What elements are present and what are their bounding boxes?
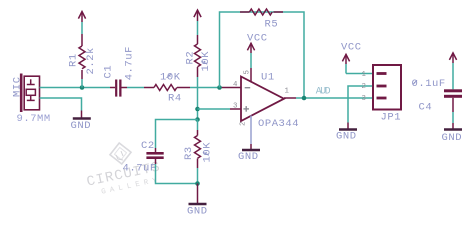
svg-text:4: 4 [233,81,238,89]
junction node D (bias top) [195,117,200,122]
ground (mic) [71,111,92,133]
svg-text:VCC: VCC [247,33,268,45]
wire mic pin2 [40,98,82,111]
ground (C4) [442,130,463,145]
microphone MIC body [20,74,40,113]
watermark logo diamond [110,143,131,164]
ground (R3) [187,184,208,218]
svg-text:0.1uF: 0.1uF [412,78,446,90]
power VCC arrow (JP1) [342,54,349,73]
op-amp U1 triangle [241,77,284,122]
svg-text:VCC: VCC [341,42,362,54]
capacitor C2 [146,148,163,164]
op-amp pin2 wire down [250,116,252,145]
svg-text:GND: GND [238,151,259,163]
svg-text:OPA344: OPA344 [258,118,299,130]
wire R4 to node B [190,87,220,89]
svg-text:2: 2 [240,122,248,126]
power VCC arrow (R1) [78,12,85,35]
wire JP1 pin1 [346,73,373,75]
svg-text:R2: R2 [185,51,197,65]
slashed zero marks [167,61,417,155]
feedback loop wires [220,12,305,98]
svg-text:5: 5 [244,70,252,74]
svg-text:3: 3 [233,103,237,111]
svg-text:JP1: JP1 [381,111,402,123]
capacitor C4 [444,89,462,129]
svg-text:MIC: MIC [12,76,24,97]
resistor R4 [144,85,190,91]
power VCC arrow (C4) [449,53,456,89]
svg-text:1: 1 [285,87,290,95]
bias network: wire to C2 loop [156,120,198,149]
svg-text:4.7uF: 4.7uF [124,46,136,80]
svg-text:3: 3 [362,95,366,103]
svg-text:2.2k: 2.2k [85,47,97,74]
wire + input to op-amp [198,108,231,110]
svg-text:R3: R3 [183,146,195,160]
junction output node [302,96,307,101]
wire - input pin [220,87,242,89]
resistor R3 [195,120,201,184]
ground (JP1) [336,130,357,143]
svg-text:U1: U1 [261,71,275,83]
svg-text:AUD: AUD [316,85,331,96]
resistor R1 [79,34,85,88]
svg-text:4.7uF: 4.7uF [123,163,157,175]
svg-text:R1: R1 [68,53,80,67]
JP1 contact bars [377,72,387,99]
svg-text:GND: GND [442,132,463,144]
svg-text:GND: GND [71,120,92,132]
wire output to JP1 pin3 [296,97,373,99]
junction bias bottom [195,181,200,186]
wire C2 bottom loop [156,164,198,184]
connector JP1 box [373,65,401,110]
resistor R5 [240,9,283,15]
svg-text:GND: GND [336,131,357,143]
wire mic pin1 to node A [40,87,111,89]
ground (op-amp) [238,150,260,163]
wire JP1 pin2 to gnd [348,86,373,123]
capacitor C1 [110,80,127,97]
svg-text:C1: C1 [103,65,115,79]
minus mark [245,87,251,89]
svg-text:GND: GND [187,206,208,218]
plus mark [243,106,249,112]
junction node B (-input/feedback) [217,85,222,90]
svg-text:2: 2 [362,83,366,91]
power VCC arrow (op-amp pin5) [247,43,254,82]
svg-text:R5: R5 [265,19,279,31]
op-amp output pin [284,97,296,99]
svg-text:9.7MM: 9.7MM [17,113,51,125]
junction node C (+input) [195,107,200,112]
power VCC arrow (R2) [194,10,201,35]
svg-text:10K: 10K [160,71,181,83]
svg-text:C4: C4 [419,101,433,113]
svg-text:R4: R4 [168,92,182,104]
svg-text:1: 1 [362,71,367,79]
resistor R2 [195,35,201,77]
svg-text:C2: C2 [141,140,155,152]
wire C1 to R4 [127,87,144,89]
junction node A [80,85,85,90]
wire R2 down through main row to + input node [197,77,199,120]
